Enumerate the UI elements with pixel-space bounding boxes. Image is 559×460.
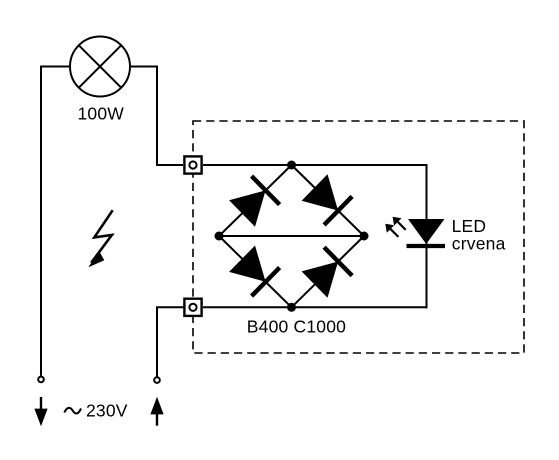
arrow down (left mains lead) bbox=[34, 397, 47, 426]
bridge arm B-R bbox=[292, 236, 365, 307]
svg-text:B400 C1000: B400 C1000 bbox=[247, 317, 346, 337]
lamp E1 100W bbox=[70, 37, 130, 97]
node B junction bbox=[287, 303, 296, 312]
svg-text:230V: 230V bbox=[86, 400, 128, 420]
wire left rail down bbox=[40, 66, 42, 376]
LED D5 bbox=[407, 219, 446, 246]
diode D2 (top-right arm) bbox=[302, 174, 353, 225]
diode D4 (bottom-right arm) bbox=[302, 247, 353, 298]
AC sine symbol bbox=[64, 408, 81, 414]
arrow up (right mains lead) bbox=[150, 397, 163, 426]
wire middle L-R bbox=[219, 235, 364, 237]
svg-text:100W: 100W bbox=[78, 104, 125, 124]
terminal X2 (bottom) bbox=[184, 299, 201, 316]
diode D3 (bottom-left arm) bbox=[229, 246, 280, 297]
bridge arm L-B bbox=[219, 236, 292, 307]
wire lamp left to left rail bbox=[41, 66, 70, 68]
svg-text:crvena: crvena bbox=[452, 233, 506, 253]
wire top terminal to right rail bbox=[203, 164, 427, 166]
bridge arm T-R bbox=[292, 165, 365, 236]
diode D1 (top-left arm) bbox=[229, 176, 280, 227]
flash / hazard bolt bbox=[88, 210, 112, 267]
bridge arm L-T bbox=[219, 165, 292, 236]
node R junction bbox=[360, 232, 369, 241]
dashed enclosure box bbox=[193, 121, 524, 353]
terminal circle right (mains) bbox=[154, 377, 160, 383]
LED light arrow 2 bbox=[393, 217, 406, 230]
wire right rail (LED branch) bbox=[426, 164, 428, 308]
node T junction bbox=[287, 161, 296, 170]
wire bottom terminal to left then down bbox=[157, 307, 184, 376]
LED light arrow 1 bbox=[385, 224, 398, 237]
node L junction bbox=[215, 232, 224, 241]
wire bottom terminal to right rail bbox=[203, 306, 427, 308]
terminal circle left (mains) bbox=[38, 377, 44, 383]
wire to top terminal bbox=[156, 164, 183, 166]
terminal X1 (top) bbox=[184, 156, 201, 173]
wire lamp right then down bbox=[130, 67, 157, 166]
